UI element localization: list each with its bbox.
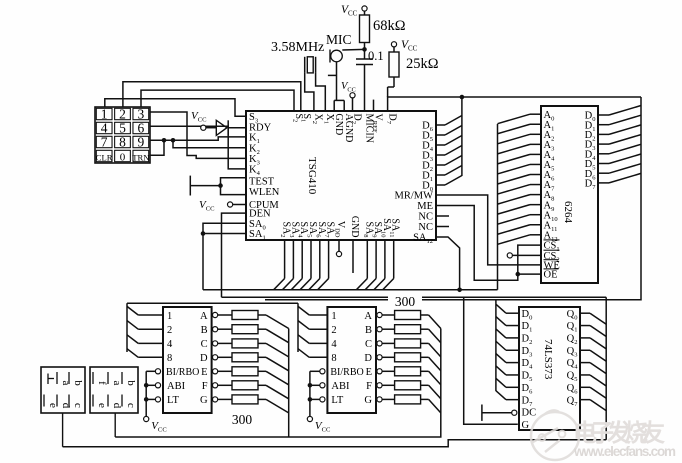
svg-text:2: 2 (331, 325, 336, 336)
svg-text:GND: GND (349, 216, 360, 238)
svg-text:BI/RBO: BI/RBO (330, 367, 363, 378)
wire dot-b to K2 (173, 140, 246, 148)
svg-text:www.elecfans.com: www.elecfans.com (573, 444, 676, 459)
svg-text:3.58MHz: 3.58MHz (271, 40, 324, 55)
6264 data diagonals (598, 106, 641, 183)
Vcc terminal for diode (191, 110, 207, 130)
svg-text:f: f (96, 381, 108, 385)
svg-text:2: 2 (119, 106, 126, 121)
svg-text:DC: DC (522, 407, 537, 418)
junction dot SA bus (457, 288, 462, 293)
wire crystal left to X2 (305, 73, 314, 111)
decoder lamp-test tie with Vcc (144, 369, 168, 434)
wire CS1 tie to OE (518, 245, 541, 274)
svg-text:d: d (111, 403, 123, 409)
bus DEN/Q line (222, 296, 607, 298)
svg-text:ABI: ABI (167, 381, 186, 392)
capacitor 0.1 (356, 59, 373, 111)
svg-text:7: 7 (101, 134, 108, 149)
wire keypad row2 to K4 (150, 126, 246, 169)
svg-text:NC: NC (418, 212, 433, 223)
74LS373 Q diagonals to bus (580, 297, 606, 439)
wire bar to junction (190, 185, 220, 187)
svg-text:F: F (366, 381, 372, 392)
resistor 25k (388, 47, 399, 97)
svg-text:TRN: TRN (132, 152, 150, 162)
Vcc terminal CPUM (199, 199, 246, 213)
mic ground bar (328, 62, 337, 101)
svg-text:TSG410: TSG410 (306, 157, 318, 195)
svg-text:C: C (201, 339, 208, 350)
svg-text:B: B (365, 325, 372, 336)
label 300 chip2 (388, 294, 422, 309)
svg-text:9: 9 (137, 134, 144, 149)
microphone MIC (326, 32, 352, 63)
svg-text:OE: OE (544, 270, 558, 281)
SA address diagonals to bus (274, 240, 394, 290)
svg-text:G: G (364, 395, 372, 406)
junction dot TEST/WLEN (218, 183, 223, 188)
decoder input feed line (127, 302, 298, 304)
svg-text:D: D (200, 353, 208, 364)
wire junction to TEST (221, 178, 247, 186)
svg-text:a: a (60, 381, 72, 386)
NC stubs (436, 216, 449, 227)
DC input with ground bar (482, 405, 517, 421)
7-segment display at 41 (41, 367, 85, 413)
wire keypad col2 to S1 (123, 82, 301, 111)
wire SA bus up to 6264 A bus (497, 124, 499, 290)
svg-text:1: 1 (331, 311, 336, 322)
svg-text:2: 2 (167, 325, 172, 336)
svg-text:4: 4 (331, 339, 337, 350)
svg-text:WLEN: WLEN (249, 187, 280, 198)
svg-text:电子发烧友: 电子发烧友 (573, 419, 665, 447)
segment bus chip2 (115, 329, 441, 438)
6264 D pin labels (585, 111, 597, 191)
6264 address diagonals (498, 114, 542, 244)
data link 6264 to 74LS373 (265, 97, 641, 300)
svg-text:6264: 6264 (562, 201, 574, 224)
wire display2 to bus (114, 413, 116, 437)
wire crystal right to X1 (316, 73, 326, 111)
GND bottom stub (352, 240, 354, 273)
SA address bus horizontal (203, 289, 498, 291)
junction dot OE (516, 272, 521, 277)
svg-text:68kΩ: 68kΩ (373, 18, 406, 34)
decoder lamp-test tie with Vcc (307, 369, 331, 434)
wire keypad row3 to K1 (150, 137, 246, 140)
Vref stub (373, 100, 375, 111)
decoder pin labels (330, 311, 372, 406)
resistor 68k (360, 11, 370, 59)
svg-text:TEST: TEST (249, 177, 275, 188)
wire junction to WLEN (221, 186, 247, 195)
wire ME to OE/CS1 (436, 206, 518, 281)
6264 A pin labels (544, 110, 558, 243)
svg-text:A: A (200, 311, 208, 322)
svg-text:e: e (96, 403, 108, 408)
Vdd bottom terminal (336, 240, 341, 257)
segment resistors (377, 311, 441, 413)
decoder pin labels (166, 311, 208, 406)
wire display1 to bus (62, 413, 64, 447)
svg-text:NC: NC (418, 222, 433, 233)
svg-text:F: F (202, 381, 208, 392)
junction dot SA0/SA1 (201, 231, 206, 236)
svg-text:c: c (125, 403, 137, 408)
svg-text:BI/RBO: BI/RBO (166, 367, 199, 378)
svg-text:A: A (364, 311, 372, 322)
svg-text:G: G (200, 395, 208, 406)
6264 control labels CS1 CS2 WE OE (544, 240, 560, 281)
ground bar for TEST/WLEN (189, 176, 191, 196)
wire keypad col1 to S3 (105, 99, 246, 117)
svg-text:ME: ME (417, 201, 433, 212)
svg-text:8: 8 (167, 353, 172, 364)
wire keypad col3 to S2 (141, 90, 294, 111)
svg-text:6: 6 (137, 120, 144, 135)
svg-text:a: a (111, 381, 123, 386)
74LS373 D diagonals (496, 300, 519, 400)
decoder input bus and diagonals (127, 303, 163, 357)
TSG410 data bus diagonals (436, 97, 462, 185)
svg-text:GND: GND (333, 114, 344, 136)
svg-text:8: 8 (119, 134, 126, 149)
svg-text:MIC: MIC (326, 32, 352, 47)
junction dot D bus top (460, 95, 465, 100)
watermark logo (531, 410, 579, 460)
wire SA12 to bus (436, 237, 460, 290)
74LS373 Q pin labels (567, 309, 579, 408)
latch IC 74LS373 body (519, 307, 580, 430)
decoder input bus and diagonals (298, 303, 327, 357)
junction dot row3 b (171, 138, 176, 143)
TSG410 right pin labels (394, 121, 433, 246)
wire SA0 (203, 223, 246, 233)
segment resistors (213, 311, 289, 413)
bottom right link (63, 440, 607, 447)
svg-text:C: C (365, 339, 372, 350)
svg-text:B: B (201, 325, 208, 336)
svg-text:1: 1 (101, 106, 108, 121)
wire keypad row1 to K3 (150, 112, 246, 158)
svg-text:25kΩ: 25kΩ (406, 56, 439, 72)
svg-text:d: d (60, 403, 72, 409)
svg-text:4: 4 (167, 339, 173, 350)
TSG410 bottom pin labels (279, 216, 401, 238)
svg-text:E: E (366, 367, 372, 378)
wire GND/AGND stubs (334, 100, 344, 111)
crystal Y1 3.58MHz (305, 57, 316, 73)
svg-text:c: c (72, 403, 84, 408)
svg-text:ABI: ABI (331, 381, 350, 392)
wire OE (518, 273, 541, 275)
wire bus to latch G (464, 297, 518, 424)
Vcc terminal top (68k) (341, 4, 367, 18)
Vcc terminal 25k (391, 39, 417, 53)
wire D7 pull-up / data link (388, 97, 641, 111)
segment bus chip1 (288, 329, 290, 438)
svg-text:E: E (201, 367, 207, 378)
svg-text:300: 300 (232, 412, 253, 427)
keypad 3x4 matrix (95, 106, 150, 163)
svg-text:0.1: 0.1 (368, 49, 384, 63)
svg-text:5: 5 (119, 120, 126, 135)
diode D1 to RDY (206, 120, 246, 135)
svg-text:D: D (364, 353, 372, 364)
svg-text:G: G (522, 420, 530, 431)
wire DEN down to bus (222, 213, 247, 297)
wire MR/MW to WE (436, 195, 541, 265)
op IC U1 TSG410 body (246, 111, 436, 240)
svg-text:LT: LT (167, 395, 179, 406)
7-segment display at 90 (90, 367, 138, 413)
junction dot row3 a (162, 138, 167, 143)
CS2 open terminal (507, 253, 541, 258)
decoder IC body at 327.4 (327, 307, 376, 413)
svg-text:3: 3 (137, 106, 144, 121)
svg-text:CLR: CLR (96, 152, 113, 162)
svg-text:300: 300 (395, 294, 416, 309)
wire mic to junction (342, 48, 364, 51)
svg-text:MR/MW: MR/MW (394, 191, 433, 202)
svg-text:LT: LT (331, 395, 343, 406)
svg-text:4: 4 (101, 120, 108, 135)
junction dot mic/cap (362, 47, 367, 52)
decoder IC body at 163 (163, 307, 212, 413)
svg-text:1: 1 (167, 311, 172, 322)
svg-text:8: 8 (331, 353, 336, 364)
memory IC 6264 body (541, 106, 598, 283)
wire dot-a to TRN row (150, 140, 164, 155)
svg-text:b: b (125, 380, 137, 386)
Vcc terminal D2 pin (341, 81, 356, 111)
TSG410 left pin labels (249, 112, 280, 242)
svg-text:b: b (72, 380, 84, 386)
74LS373 D pin labels (522, 309, 537, 431)
svg-text:0: 0 (120, 151, 126, 163)
svg-text:74LS373: 74LS373 (542, 339, 554, 380)
wire SA1 down to SA bus (203, 234, 246, 290)
TSG410 top pin labels (291, 114, 397, 143)
